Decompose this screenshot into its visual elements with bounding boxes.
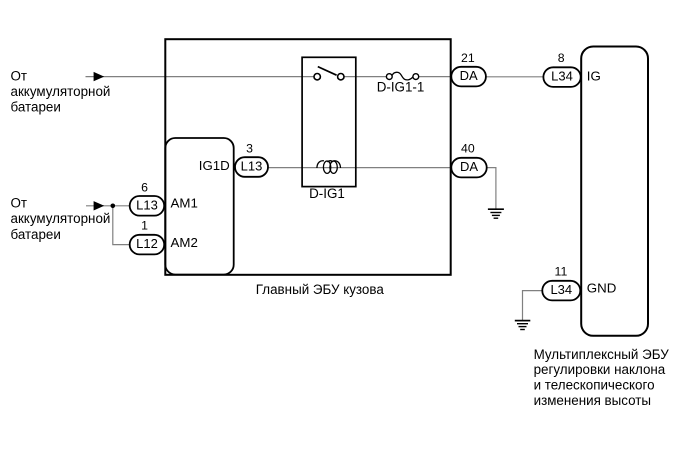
svg-text:L12: L12 (136, 236, 158, 251)
svg-text:AM2: AM2 (171, 235, 198, 250)
pin name GND (587, 280, 617, 295)
pin number 21 (461, 51, 475, 65)
pin name IG1D (199, 158, 230, 173)
wire: relay coil to DA pin 40 (340, 167, 452, 169)
svg-text:DA: DA (460, 159, 478, 174)
connector DA pin 21 (451, 67, 486, 87)
pin number 1 (141, 219, 148, 233)
pin name AM2 (171, 235, 198, 250)
wire: DA pin 21 to L34 pin 8 (486, 76, 544, 78)
arrow: from battery (top) (94, 72, 105, 81)
relay D-IG1 box (302, 57, 356, 186)
connector L12 pin 1 (130, 235, 165, 255)
wire: switch to fuse (342, 76, 388, 78)
pin number 40 (461, 142, 475, 156)
pin number 3 (246, 141, 253, 155)
relay coil (317, 161, 341, 174)
main body ECU box (Главный ЭБУ кузова) (165, 39, 450, 275)
multiplex tilt/telescopic ECU box (581, 47, 648, 336)
fuse D-IG1-1 (386, 72, 418, 80)
svg-text:L13: L13 (241, 159, 263, 174)
svg-text:От: От (11, 69, 28, 84)
svg-text:AM1: AM1 (171, 195, 198, 210)
svg-text:регулировки наклона: регулировки наклона (534, 362, 666, 377)
ground (below DA pin 40) (488, 209, 504, 218)
svg-text:батареи: батареи (11, 227, 61, 242)
svg-text:D-IG1: D-IG1 (309, 186, 345, 201)
pin number 6 (141, 181, 148, 195)
svg-text:аккумуляторной: аккумуляторной (11, 211, 111, 226)
wire: DA pin 40 to ground (487, 168, 496, 210)
svg-text:1: 1 (141, 219, 148, 233)
svg-text:и телескопического: и телескопического (534, 378, 655, 393)
wire: battery feed to ignition switch (top row) (86, 76, 317, 78)
svg-text:Мультиплексный ЭБУ: Мультиплексный ЭБУ (534, 347, 670, 362)
label: fuse name D-IG1-1 (377, 80, 425, 95)
connector L13 pin 6 (130, 196, 165, 216)
svg-text:40: 40 (461, 142, 475, 156)
connector DA pin 40 (451, 158, 486, 178)
svg-text:IG1D: IG1D (199, 158, 230, 173)
svg-text:L13: L13 (136, 197, 158, 212)
wire: L13 pin 3 to relay coil (267, 167, 317, 169)
wire: fuse to connector DA pin 21 (417, 76, 452, 78)
label: relay name D-IG1 (309, 186, 345, 201)
svg-text:От: От (11, 195, 28, 210)
svg-text:L34: L34 (550, 282, 572, 297)
ground (below L34 pin 11) (515, 321, 531, 330)
svg-text:L34: L34 (551, 69, 573, 84)
wire: battery feed to AM1 (86, 205, 131, 207)
svg-text:11: 11 (555, 264, 568, 278)
pin number 8 (558, 51, 565, 65)
wire: L34 pin 11 to ground (523, 291, 543, 321)
pin name IG (587, 69, 601, 84)
svg-text:D-IG1-1: D-IG1-1 (377, 80, 425, 95)
connector L34 pin 8 (543, 67, 580, 87)
svg-text:батареи: батареи (11, 99, 61, 114)
svg-text:8: 8 (558, 51, 565, 65)
svg-text:6: 6 (141, 181, 148, 195)
label: from battery (top) (11, 69, 111, 115)
label: from battery (lower) (11, 195, 111, 242)
relay switch contact (314, 67, 344, 80)
svg-text:3: 3 (246, 141, 253, 155)
wire: through relay coil (317, 167, 340, 169)
connector L13 pin 3 (235, 157, 268, 177)
svg-text:DA: DA (460, 68, 478, 83)
svg-text:аккумуляторной: аккумуляторной (11, 84, 111, 99)
svg-text:GND: GND (587, 280, 617, 295)
label: multiplex ECU caption (534, 347, 670, 408)
pin name AM1 (171, 195, 198, 210)
svg-text:21: 21 (461, 51, 475, 65)
connector L34 pin 11 (542, 281, 580, 301)
svg-text:IG: IG (587, 69, 601, 84)
junction dot (111, 204, 116, 209)
inner connector block IG1D/AM1/AM2 (165, 138, 233, 275)
wire: branch to AM2 (113, 206, 131, 245)
pin number 11 (555, 264, 568, 278)
svg-text:изменения высоты: изменения высоты (534, 393, 651, 408)
svg-text:Главный ЭБУ кузова: Главный ЭБУ кузова (256, 282, 385, 297)
arrow: from battery (lower) (94, 201, 105, 210)
label: main body ECU caption (256, 282, 385, 297)
